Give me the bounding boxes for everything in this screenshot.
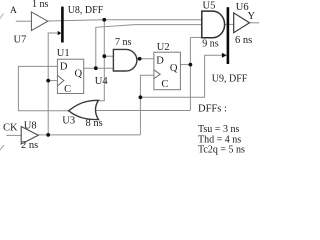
svg-text:Q: Q: [170, 63, 178, 74]
svg-text:DFFs :: DFFs :: [198, 103, 227, 114]
svg-text:U3: U3: [62, 115, 75, 126]
svg-text:1 ns: 1 ns: [32, 0, 49, 10]
svg-text:U1: U1: [57, 48, 70, 59]
svg-text:Y: Y: [248, 11, 256, 22]
svg-text:U5: U5: [203, 1, 216, 12]
svg-text:U8: U8: [24, 121, 37, 132]
svg-text:D: D: [60, 62, 68, 73]
svg-text:8 ns: 8 ns: [86, 118, 103, 129]
svg-text:Tc2q = 5 ns: Tc2q = 5 ns: [198, 145, 245, 156]
svg-text:U9, DFF: U9, DFF: [212, 73, 248, 84]
svg-text:C: C: [161, 79, 168, 90]
svg-text:Q: Q: [75, 68, 83, 79]
svg-text:U4: U4: [95, 76, 109, 87]
svg-text:6 ns: 6 ns: [235, 35, 252, 46]
svg-text:A: A: [10, 6, 17, 16]
svg-text:7 ns: 7 ns: [115, 37, 132, 48]
svg-text:U7: U7: [14, 34, 27, 45]
svg-text:U2: U2: [157, 42, 170, 53]
svg-text:9 ns: 9 ns: [202, 39, 219, 50]
svg-text:2 ns: 2 ns: [21, 140, 38, 151]
svg-text:C: C: [64, 84, 71, 95]
svg-text:CK: CK: [3, 122, 18, 133]
svg-text:D: D: [156, 56, 164, 67]
svg-text:U8, DFF: U8, DFF: [68, 5, 104, 16]
